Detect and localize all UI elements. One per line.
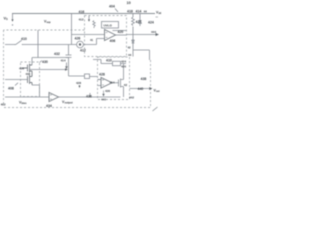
node dot below Vs (12, 24, 13, 25)
svg-text:424: 424 (121, 60, 126, 64)
tick under Vdd (156, 16, 159, 18)
transistor Q1 (22, 64, 32, 75)
wire right output arrow (127, 34, 157, 36)
svg-text:410: 410 (106, 59, 112, 63)
wire gate feed (5, 79, 28, 81)
wire y76 to block (90, 76, 98, 78)
wire op-amp U2 inputs (98, 80, 102, 86)
wire lower box resistor row (101, 63, 113, 65)
current source dot (79, 43, 81, 45)
switch S1 blade (16, 40, 22, 45)
svg-text:432: 432 (54, 52, 60, 56)
svg-text:444: 444 (151, 30, 156, 34)
wire input stub Vs (12, 14, 14, 21)
leader 408 diagonal (15, 83, 18, 86)
svg-text:41: 41 (90, 38, 94, 42)
svg-text:420: 420 (118, 30, 124, 34)
wire resistor to FET drain (121, 64, 127, 80)
wire FET source down (123, 87, 125, 98)
dashed outer box bottom (4, 107, 152, 109)
wire mirror output y69.5 (30, 70, 102, 80)
wire y50 to right corner (133, 50, 150, 60)
diode D1 right branch (138, 21, 141, 27)
leader 428c stub (79, 85, 81, 86)
svg-text:Voutput: Voutput (62, 100, 73, 105)
svg-text:438: 438 (26, 72, 31, 76)
dashed lower box 414 (98, 57, 130, 100)
svg-text:414: 414 (61, 59, 66, 63)
wire output to arrow (130, 88, 150, 90)
wire branch x140 (139, 14, 141, 21)
wire lower box regulator node (93, 60, 101, 64)
wire cap column down (69, 58, 85, 77)
svg-text:426: 426 (75, 37, 81, 41)
svg-text:420: 420 (121, 65, 126, 69)
op-amp U2 marks (102, 80, 104, 85)
wire y44.5 from border (5, 44, 77, 46)
svg-text:Vbias: Vbias (19, 101, 27, 106)
svg-text:410: 410 (21, 37, 27, 41)
svg-text:436: 436 (105, 89, 110, 93)
switch contact dots (14, 44, 15, 45)
resistor R1 right branch (132, 17, 135, 26)
svg-text:414: 414 (136, 10, 142, 14)
svg-text:440: 440 (138, 87, 144, 91)
svg-text:Vdd: Vdd (156, 11, 162, 16)
op-amp U3 marks (50, 95, 52, 99)
op-amp U1 marks (106, 33, 108, 38)
svg-text:404: 404 (109, 5, 115, 9)
svg-text:UVLO: UVLO (104, 24, 113, 28)
svg-text:42: 42 (124, 83, 128, 87)
svg-text:424: 424 (148, 21, 154, 25)
tick bottom right (153, 107, 158, 111)
wire feedback upper (113, 30, 127, 32)
wire top supply rail (12, 13, 155, 15)
arrowhead stub x89 (88, 19, 90, 21)
svg-text:418: 418 (127, 10, 133, 14)
svg-text:438: 438 (141, 77, 147, 81)
wire current source output (83, 39, 104, 45)
wire op-amp U1 output (116, 34, 127, 36)
svg-text:VS: VS (4, 17, 9, 22)
svg-text:436: 436 (86, 95, 92, 99)
wire op-amp U3 input (5, 96, 49, 98)
leader 404 diagonal (115, 9, 118, 13)
svg-text:44: 44 (128, 53, 132, 57)
leader 430 diagonal (40, 61, 43, 63)
resistor r small mid box (93, 21, 95, 29)
svg-text:402: 402 (1, 103, 6, 107)
dashed outer box right (150, 60, 152, 108)
wire noninverting input y34.5 (72, 34, 105, 36)
wire op-amp U3 output (59, 93, 121, 97)
dashed outer box 402 top and left (4, 30, 85, 106)
wire vertical x38 (37, 30, 39, 58)
capacitor C1 (66, 45, 72, 58)
dashed middle box 404 (85, 16, 127, 57)
arrowhead buffer output (149, 87, 152, 90)
svg-text:44: 44 (144, 10, 148, 14)
svg-text:408: 408 (8, 87, 14, 91)
op-amp U2 (101, 78, 112, 89)
svg-text:42: 42 (128, 46, 132, 50)
wire op-amp U2 output to gate (112, 82, 119, 84)
svg-text:406: 406 (110, 39, 116, 43)
svg-text:412: 412 (80, 49, 86, 53)
arrowhead input Vs (11, 19, 13, 21)
svg-text:10: 10 (127, 1, 131, 5)
svg-text:Vsup: Vsup (44, 20, 51, 25)
diode D2 on x133 (132, 40, 135, 43)
transistor M1 pass FET (119, 79, 124, 88)
svg-text:442: 442 (129, 96, 134, 100)
arrowhead mirror wire (65, 68, 68, 71)
op-amp U1 (105, 30, 116, 41)
block UVLO box (102, 22, 119, 29)
svg-text:434: 434 (46, 104, 52, 108)
wire mirror feed down (31, 58, 33, 66)
wire branch x133 (132, 14, 134, 51)
arrowhead 436b (102, 94, 104, 97)
current source I1 (77, 41, 84, 48)
leader arrow stub x89 (88, 16, 90, 20)
leader 414c arrow (66, 63, 68, 67)
svg-text:440: 440 (101, 98, 106, 102)
arrowhead leader 414c (65, 66, 68, 69)
svg-text:422: 422 (136, 20, 142, 24)
svg-text:416: 416 (79, 10, 85, 14)
wire row y57.5 (32, 57, 69, 59)
svg-text:428: 428 (76, 81, 81, 85)
svg-text:428: 428 (99, 73, 105, 77)
arrowhead right output (156, 33, 160, 36)
block S1 (85, 74, 90, 79)
leader 436b arrow (103, 91, 105, 95)
svg-text:412: 412 (79, 18, 84, 22)
wire mirror bottom (32, 85, 40, 97)
arrowhead 428c (78, 86, 80, 88)
svg-text:414: 414 (110, 81, 115, 85)
dashed left box 408 (21, 62, 40, 97)
svg-text:406: 406 (19, 67, 24, 71)
wire dropper x71.5 (71, 14, 73, 45)
svg-text:Vout: Vout (154, 89, 160, 94)
op-amp U3 (49, 93, 59, 102)
transistor Q2 (28, 74, 33, 85)
resistor R2 lower box (113, 61, 121, 65)
svg-text:430: 430 (42, 60, 48, 64)
